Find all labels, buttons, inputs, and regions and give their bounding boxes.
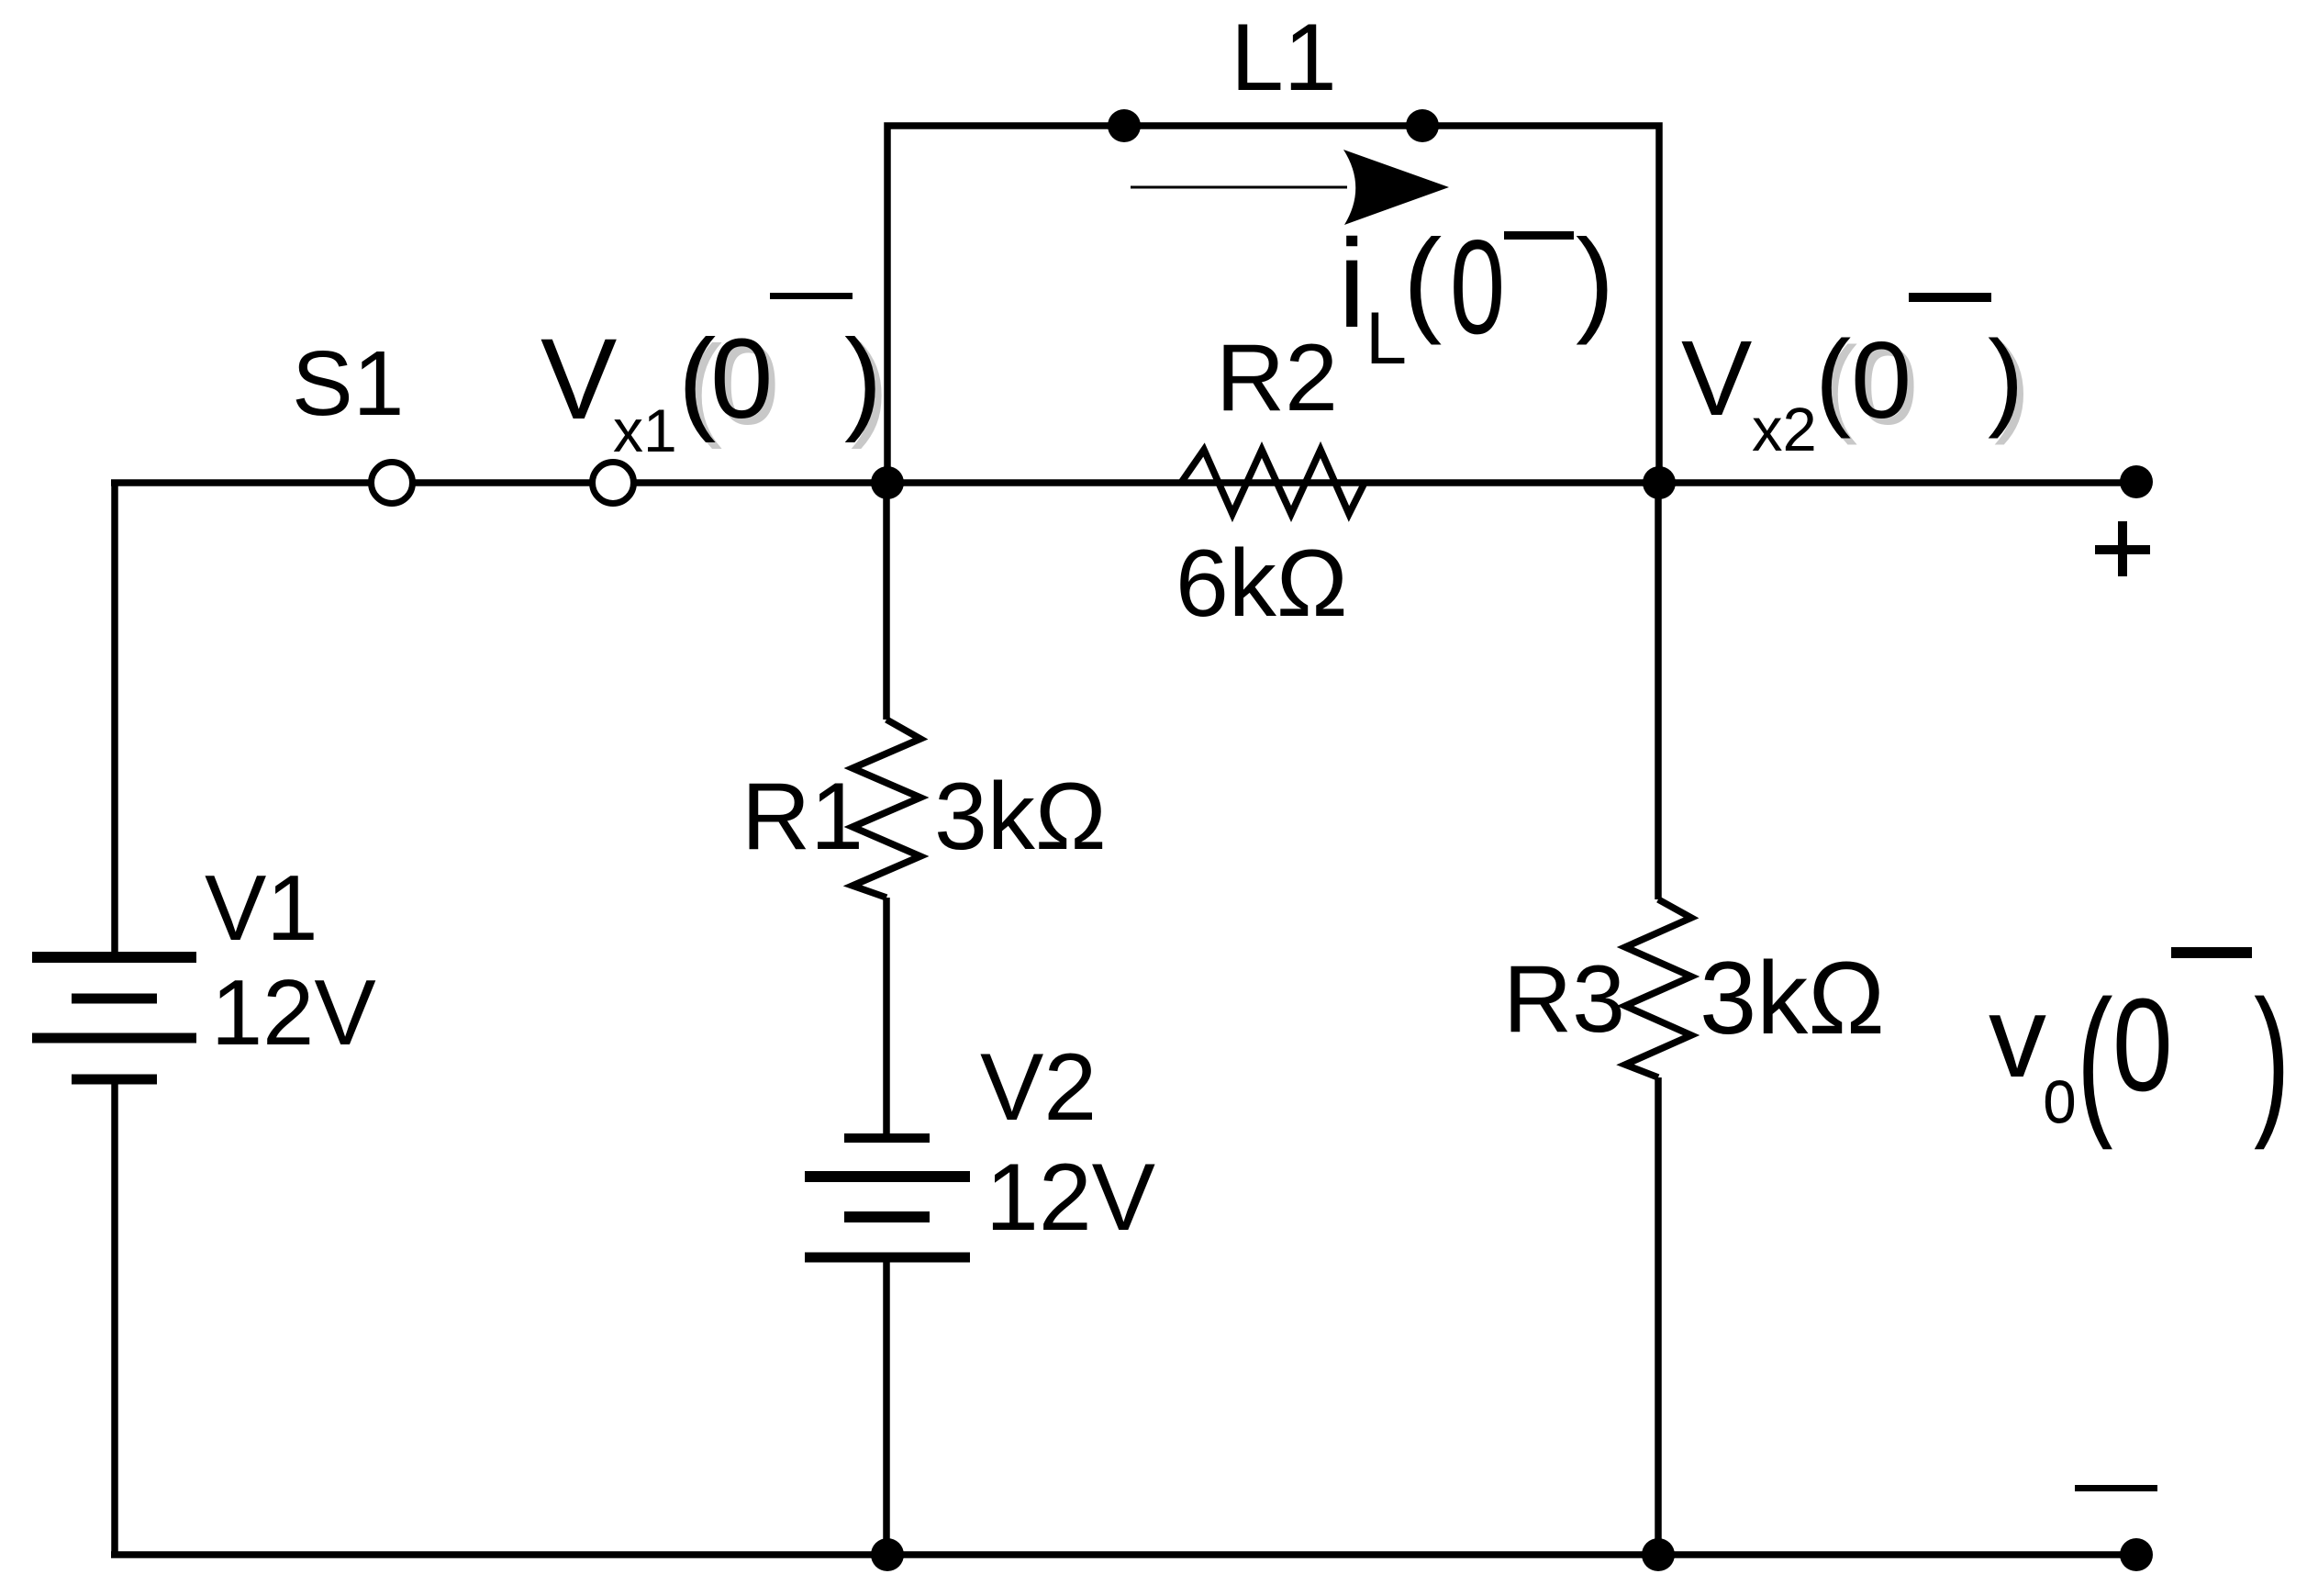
svg-text:V2: V2 (980, 1034, 1097, 1141)
resistor R1 (853, 720, 920, 898)
label iL(0-) (1338, 213, 1614, 380)
svg-text:S1: S1 (292, 332, 404, 435)
switch S1 circle 1 (372, 463, 413, 504)
svg-text:0: 0 (710, 317, 773, 442)
junction dot V2 bottom (871, 1538, 904, 1571)
node junction dot at Vx2/R3/L1 (1643, 466, 1676, 499)
svg-text:o: o (2043, 1053, 2077, 1140)
svg-text:i: i (1338, 214, 1365, 354)
svg-text:V: V (1681, 318, 1752, 438)
voltage source V1 plate long top (32, 952, 196, 963)
svg-text:0: 0 (2112, 971, 2173, 1119)
junction dot R3 bottom (1642, 1538, 1675, 1571)
wire: left wire from main node down to V1 (111, 480, 118, 957)
voltage source V2 plate long bottom (805, 1253, 970, 1263)
svg-text:6kΩ: 6kΩ (1176, 530, 1348, 637)
svg-text:x2: x2 (1752, 396, 1817, 464)
wire: R3 bottom lead to ground wire (1655, 1077, 1662, 1555)
wire: V2 bottom stem to ground wire (883, 1258, 890, 1557)
output plus sign (2095, 521, 2150, 576)
svg-text:R2: R2 (1216, 325, 1338, 431)
svg-text:): ) (2254, 966, 2290, 1151)
inductor L1 terminal dot left (1108, 109, 1141, 142)
svg-text:12V: 12V (986, 1144, 1155, 1251)
voltage source V2 plate short top (844, 1133, 930, 1143)
svg-text:v: v (1989, 972, 2046, 1101)
wire: R1 bottom lead to V2 (883, 898, 890, 1138)
svg-text:): ) (1576, 215, 1614, 345)
node junction dot at Vx1/R1/L1 (871, 466, 904, 499)
wire: R1 top lead from node Vx1 (883, 483, 890, 720)
svg-text:(: ( (1403, 215, 1442, 345)
terminal dot bottom right (2120, 1538, 2153, 1571)
svg-text:L: L (1365, 297, 1407, 380)
wire: V1 bottom stem (111, 1079, 118, 1557)
svg-text:0: 0 (1851, 319, 1911, 441)
svg-text:(: ( (2077, 966, 2113, 1151)
svg-text:3kΩ: 3kΩ (1700, 941, 1885, 1055)
voltage source V1 plate long (32, 1033, 196, 1044)
svg-text:R1: R1 (741, 764, 864, 870)
output label vo(0-) (1989, 947, 2290, 1151)
current arrow iL shaft (1131, 186, 1347, 189)
voltage source V1 plate short (72, 994, 157, 1004)
voltage source V2 plate short (844, 1211, 930, 1222)
resistor R3 (1625, 899, 1691, 1077)
wire: main horizontal node wire (111, 479, 2136, 486)
node terminal dot right end of main wire (2120, 465, 2153, 498)
node label Vx2(0-) (1681, 293, 2030, 464)
node label Vx1(0-) (541, 293, 888, 464)
svg-text:R3: R3 (1503, 946, 1625, 1053)
wire: inductor loop left riser, top span, right riser (887, 126, 1659, 483)
current arrow iL head (1343, 150, 1449, 225)
switch S1 circle 2 (node Vx1 terminal) (593, 463, 634, 504)
resistor R2 (1181, 450, 1365, 514)
svg-text:x1: x1 (613, 396, 677, 464)
svg-text:V1: V1 (205, 857, 318, 960)
svg-text:0: 0 (1450, 213, 1505, 363)
svg-text:V: V (541, 316, 617, 443)
output minus sign (2075, 1485, 2157, 1491)
svg-text:12V: 12V (211, 962, 376, 1065)
svg-text:L1: L1 (1231, 5, 1337, 111)
voltage source V1 plate short bottom (72, 1075, 157, 1085)
wire: bottom ground return wire (111, 1551, 2136, 1558)
svg-text:): ) (844, 317, 882, 443)
svg-text:(: ( (1815, 318, 1851, 440)
inductor L1 terminal dot right (1406, 109, 1439, 142)
svg-text:): ) (1988, 318, 2023, 440)
wire: R3 top lead from node Vx2 (1655, 483, 1662, 899)
svg-text:3kΩ: 3kΩ (934, 764, 1107, 870)
voltage source V2 plate long (805, 1171, 970, 1182)
